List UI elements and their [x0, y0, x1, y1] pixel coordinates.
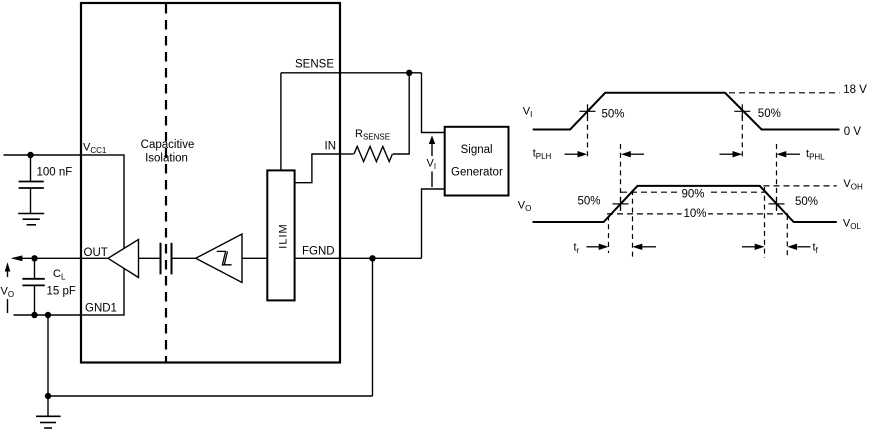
svg-text:ILIM: ILIM [277, 223, 289, 248]
svg-text:100 nF: 100 nF [37, 167, 73, 179]
svg-text:SENSE: SENSE [295, 59, 334, 71]
waveform VO trace [533, 186, 837, 222]
dashed vertical VO falling 90% [764, 187, 766, 258]
dashed vertical VO rising 50% [620, 144, 622, 211]
node junction CL-GND1 [31, 312, 37, 318]
dashed level 90% [621, 191, 770, 193]
svg-text:50%: 50% [758, 108, 781, 120]
dashed vertical VO rising 10% [608, 216, 610, 254]
svg-text:OUT: OUT [84, 247, 108, 259]
wire RSENSE to SENSE node [393, 73, 409, 154]
wire isolation cap to A2 [172, 257, 196, 259]
svg-text:50%: 50% [602, 108, 625, 120]
arrow tr left [633, 244, 657, 250]
arrow at OUT wire end [11, 255, 23, 261]
node junction FGND drop [369, 255, 375, 261]
cross mark 50% VI falling [734, 104, 750, 118]
svg-text:Isolation: Isolation [145, 153, 188, 165]
dashed level VOH [764, 185, 837, 187]
arrow tPHL right [720, 151, 743, 157]
node junction bottom rail [45, 393, 51, 399]
svg-text:Generator: Generator [451, 167, 503, 179]
ground (bottom) [36, 396, 61, 428]
wire A1 to isolation cap [139, 257, 161, 259]
capacitive isolation barrier dashed line [165, 4, 167, 362]
ground (under 100 nF) [18, 214, 44, 225]
wire SENSE into ILIM [280, 73, 282, 171]
svg-text:Capacitive: Capacitive [141, 139, 195, 151]
node junction SENSE/RSENSE [406, 70, 412, 76]
label Capacitive Isolation [141, 139, 195, 165]
wire GND1 net [14, 314, 82, 316]
wire GND1 to bottom rail [47, 315, 49, 396]
cross mark 50% VO rising [613, 197, 629, 211]
wire SENSE to signal generator plus [422, 73, 445, 133]
arrow tPLH left [621, 151, 644, 157]
block ILIM [267, 170, 294, 300]
wire VCC1 rail [4, 154, 82, 156]
capacitor CL 15 pF [22, 258, 44, 315]
svg-text:0 V: 0 V [844, 126, 862, 138]
dashed vertical VO rising 90% [632, 190, 634, 259]
dashed vertical VI rising 50% [587, 116, 589, 159]
dashed vertical VO falling 10% [786, 215, 788, 258]
arrow tf right [742, 244, 765, 250]
cross mark 50% VI rising [580, 104, 596, 118]
inner pin block [81, 155, 124, 315]
wire SENSE rail [281, 72, 422, 74]
wire FGND to signal generator minus [422, 189, 445, 258]
node junction on OUT net [31, 255, 37, 261]
capacitor 100 nF [19, 155, 44, 214]
dashed level 10% [607, 213, 788, 215]
node VI measurement annotation [427, 135, 437, 187]
svg-text:FGND: FGND [302, 246, 335, 258]
hysteresis symbol in A2 [217, 251, 232, 264]
node junction GND1 drop [45, 312, 51, 318]
svg-text:10%: 10% [684, 208, 707, 220]
wire OUT net [13, 257, 108, 259]
wire IN pin to RSENSE [340, 153, 354, 155]
dashed level 18V [729, 92, 840, 94]
svg-text:IN: IN [325, 141, 337, 153]
wire bottom ground rail [48, 395, 373, 397]
op-amp buffer A1 (output driver) [108, 240, 139, 278]
arrow tf left [787, 244, 810, 250]
svg-text:50%: 50% [795, 196, 818, 208]
op-amp buffer A2 (schmitt receiver) [196, 234, 242, 283]
node junction on VCC1 rail [27, 152, 33, 158]
cross mark 50% VO falling [769, 197, 785, 211]
dashed vertical VI falling 50% [741, 116, 743, 159]
svg-text:90%: 90% [682, 189, 705, 201]
svg-text:50%: 50% [578, 196, 601, 208]
outer device box U1 [81, 3, 340, 363]
wire A2 to ILIM [242, 257, 267, 259]
wire FGND net [295, 257, 422, 259]
svg-text:18 V: 18 V [843, 84, 867, 96]
node VO measurement annotation [1, 262, 15, 313]
block signal generator [445, 127, 509, 196]
waveform VI trace [533, 93, 840, 130]
svg-text:GND1: GND1 [85, 303, 117, 315]
arrow tr right [587, 244, 609, 250]
wire IN net inside [295, 154, 340, 183]
arrow tPLH right [565, 151, 588, 157]
dashed vertical VO falling 50% [776, 144, 778, 211]
wire FGND to bottom rail [372, 258, 374, 396]
svg-text:15 pF: 15 pF [47, 286, 76, 298]
svg-text:Signal: Signal [461, 144, 493, 156]
arrow tPHL left [777, 151, 801, 157]
capacitor isolation barrier [161, 243, 172, 275]
resistor RSENSE [354, 146, 392, 161]
